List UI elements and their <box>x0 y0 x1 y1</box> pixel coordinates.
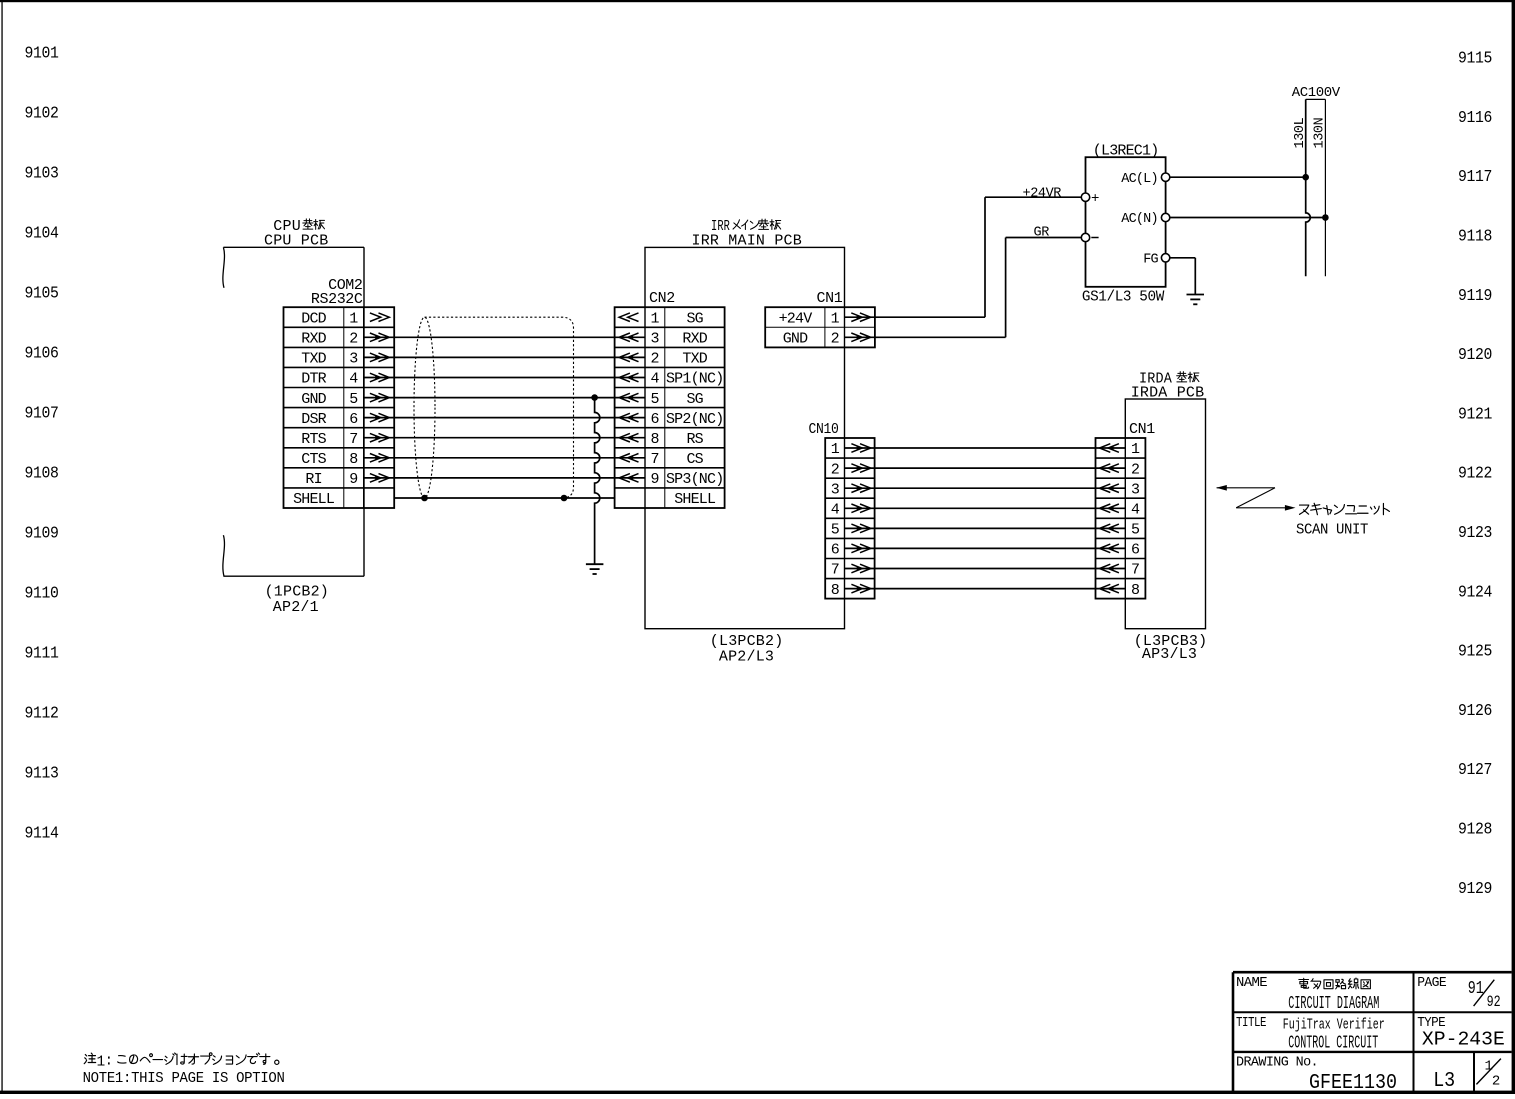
svg-text:9128: 9128 <box>1458 821 1492 839</box>
svg-text:92: 92 <box>1487 993 1501 1011</box>
svg-text:GFEE1130: GFEE1130 <box>1309 1072 1397 1094</box>
CN10 pin 5 <box>831 522 871 539</box>
label CPU基板 / CPU PCB <box>264 218 328 250</box>
CN2 pin 6 (SP2(NC)) <box>619 411 723 428</box>
svg-text:TITLE: TITLE <box>1236 1016 1266 1031</box>
svg-text:9116: 9116 <box>1458 109 1492 127</box>
svg-text:GND: GND <box>783 331 808 348</box>
wire CN10.1 to IRDA CN1.1 <box>845 447 1125 449</box>
svg-text:9127: 9127 <box>1458 761 1492 779</box>
connector CN10 table grid <box>825 438 874 599</box>
svg-text:9: 9 <box>349 471 358 488</box>
IRDA CN1 pin 1 <box>1100 441 1140 458</box>
svg-text::: : <box>105 1054 113 1070</box>
IRDA CN1 pin 4 <box>1100 502 1140 519</box>
svg-text:9124: 9124 <box>1458 583 1492 601</box>
CN2 pin 4 (SP1(NC)) <box>619 371 723 388</box>
IRDA CN1 pin 7 <box>1100 562 1140 579</box>
wire COM2.7 to CN2 (RTS) <box>364 437 645 439</box>
svg-text:1: 1 <box>349 310 358 327</box>
wire PSU AC(N) to 130N line <box>1170 217 1326 219</box>
svg-text:RXD: RXD <box>301 331 326 348</box>
svg-text:GS1/L3 50W: GS1/L3 50W <box>1082 289 1164 306</box>
svg-text:RTS: RTS <box>301 431 326 448</box>
svg-text:SG: SG <box>686 310 703 327</box>
junction dot GND wire to shield drain <box>591 394 598 401</box>
title block sheet fraction 1/2 <box>1476 1058 1501 1089</box>
svg-text:4: 4 <box>650 371 659 388</box>
COM2 pin 9 (RI) <box>305 471 389 488</box>
wire CN10.4 to IRDA CN1.4 <box>845 507 1125 509</box>
svg-text:PAGE: PAGE <box>1417 976 1446 991</box>
CN2 pin 3 (RXD) <box>619 331 708 348</box>
COM2 pin 3 (TXD) <box>301 351 389 368</box>
PSU terminal AC(L) <box>1121 172 1170 187</box>
svg-text:2: 2 <box>831 461 840 478</box>
svg-text:CN2: CN2 <box>649 290 675 307</box>
svg-text:NOTE1:THIS PAGE IS OPTION: NOTE1:THIS PAGE IS OPTION <box>83 1071 285 1087</box>
svg-text:CONTROL CIRCUIT: CONTROL CIRCUIT <box>1288 1033 1378 1053</box>
AC input top bracket <box>1306 98 1326 100</box>
CN2 pin 5 (SG) <box>619 391 704 408</box>
svg-text:IRDA PCB: IRDA PCB <box>1131 385 1205 402</box>
IRDA CN1 pin 5 <box>1100 522 1140 539</box>
svg-text:8: 8 <box>1131 582 1140 599</box>
svg-text:CN1: CN1 <box>817 290 843 307</box>
connector CN1 (IRDA) table grid <box>1096 438 1146 599</box>
svg-text:9122: 9122 <box>1458 465 1492 483</box>
svg-text:RS232C: RS232C <box>311 291 363 308</box>
PSU terminal - (GR) <box>1081 233 1098 241</box>
svg-text:2: 2 <box>831 331 840 348</box>
title block TYPE cell: XP-243E <box>1417 1016 1505 1051</box>
svg-text:9: 9 <box>650 471 659 488</box>
connector CN1 table grid <box>765 307 875 347</box>
svg-text:TXD: TXD <box>301 351 326 368</box>
svg-text:(L3REC1): (L3REC1) <box>1093 142 1159 159</box>
svg-text:9104: 9104 <box>25 225 59 243</box>
svg-text:9111: 9111 <box>25 645 59 663</box>
svg-text:2: 2 <box>650 351 659 368</box>
svg-text:9121: 9121 <box>1458 405 1492 423</box>
earth ground symbol below shield drain <box>586 564 604 574</box>
svg-text:SHELL: SHELL <box>674 491 716 508</box>
svg-text:8: 8 <box>349 451 358 468</box>
CN2 pin 1 (SG) <box>619 310 704 327</box>
svg-text:7: 7 <box>1131 562 1140 579</box>
COM2 pin 4 (DTR) <box>301 371 389 388</box>
wire COM2.2 to CN2 (RXD) <box>364 336 645 338</box>
connector COM2 table grid <box>284 307 395 508</box>
shield drain wire to earth (with wire hops) <box>595 398 600 564</box>
CN1 pin 1 (+24V) <box>779 310 871 327</box>
note 注1:このページはオプションです。 <box>84 1053 279 1071</box>
label (1PCB2) AP2/1 under CPU box <box>265 584 329 616</box>
svg-text:9126: 9126 <box>1458 702 1492 720</box>
svg-text:9105: 9105 <box>25 285 59 303</box>
svg-text:6: 6 <box>349 411 358 428</box>
svg-text:IRR MAIN PCB: IRR MAIN PCB <box>692 232 802 249</box>
svg-text:RXD: RXD <box>682 331 707 348</box>
earth ground symbol at PSU FG <box>1187 295 1205 305</box>
svg-text:GND: GND <box>301 391 326 408</box>
junction dot AC(N) on 130N <box>1322 214 1329 221</box>
svg-text:9115: 9115 <box>1458 50 1492 68</box>
svg-text:XP-243E: XP-243E <box>1422 1029 1505 1051</box>
wire CN10.3 to IRDA CN1.3 <box>845 487 1125 489</box>
shield cable outline (dashed) <box>414 317 574 498</box>
svg-text:AP2/1: AP2/1 <box>273 599 319 616</box>
svg-text:3: 3 <box>831 481 840 498</box>
wire CN10.7 to IRDA CN1.7 <box>845 568 1125 570</box>
svg-text:4: 4 <box>831 502 840 519</box>
label IRRメイン基板 / IRR MAIN PCB <box>692 218 802 250</box>
left margin zone numbers 9101-9114 <box>25 45 59 843</box>
AC input line 130N <box>1324 99 1326 276</box>
svg-text:SP3(NC): SP3(NC) <box>666 471 723 488</box>
COM2 pin SHELL (SHELL) <box>293 491 335 508</box>
net label 130N (vertical) <box>1313 117 1328 148</box>
svg-text:3: 3 <box>1131 481 1140 498</box>
svg-text:AC(N): AC(N) <box>1121 212 1158 227</box>
label IRDA基板 / IRDA PCB <box>1131 370 1205 401</box>
right margin zone numbers 9115-9129 <box>1458 50 1492 898</box>
svg-text:AC(L): AC(L) <box>1121 172 1158 187</box>
svg-text:2: 2 <box>1131 461 1140 478</box>
svg-text:RI: RI <box>305 471 321 488</box>
svg-text:1: 1 <box>1131 441 1140 458</box>
svg-text:6: 6 <box>831 542 840 559</box>
svg-text:CN1: CN1 <box>1129 421 1155 438</box>
svg-text:3: 3 <box>650 331 659 348</box>
junction dot on SHELL wire at shield left <box>421 495 428 502</box>
IRDA PCB board outline (L3PCB3 AP3/L3) <box>1125 399 1205 629</box>
svg-text:CS: CS <box>686 451 703 468</box>
CN2 pin 9 (SP3(NC)) <box>619 471 723 488</box>
svg-text:5: 5 <box>1131 522 1140 539</box>
svg-text:SCAN UNIT: SCAN UNIT <box>1296 522 1369 538</box>
svg-text:+24VR: +24VR <box>1023 186 1062 201</box>
svg-text:9103: 9103 <box>25 165 59 183</box>
net label 130L (vertical) <box>1293 117 1308 148</box>
PSU terminal FG <box>1143 252 1170 267</box>
svg-text:L3: L3 <box>1433 1070 1455 1093</box>
title block NAME cell: 電気回路線図 CIRCUIT DIAGRAM <box>1236 976 1379 1014</box>
svg-text:CN10: CN10 <box>809 421 839 438</box>
IRDA CN1 pin 6 <box>1100 542 1140 559</box>
CN10 pin 4 <box>831 502 871 519</box>
svg-text:FG: FG <box>1143 252 1158 267</box>
wire COM2.6 to CN2 (DSR) <box>364 417 645 419</box>
wire PSU FG to earth ground <box>1170 258 1196 294</box>
svg-text:9107: 9107 <box>25 405 59 423</box>
svg-text:1: 1 <box>831 310 840 327</box>
label スキャンユニット / SCAN UNIT <box>1296 503 1389 538</box>
svg-text:4: 4 <box>1131 502 1140 519</box>
svg-text:9110: 9110 <box>25 585 59 603</box>
PSU terminal AC(N) <box>1121 212 1170 227</box>
svg-text:9102: 9102 <box>25 105 59 123</box>
svg-text:CPU PCB: CPU PCB <box>264 232 328 249</box>
junction dot AC(L) on 130L <box>1302 174 1309 181</box>
label (L3PCB3) AP3/L3 under IRDA box <box>1134 633 1208 663</box>
PSU terminal + (24V out) <box>1081 191 1099 207</box>
svg-text:7: 7 <box>831 562 840 579</box>
wire COM2.8 to CN2 (CTS) <box>364 457 645 459</box>
IRDA CN1 pin 2 <box>1100 461 1140 478</box>
CN1 pin 2 (GND) <box>783 331 871 348</box>
svg-text:TXD: TXD <box>682 351 707 368</box>
svg-text:8: 8 <box>650 431 659 448</box>
svg-text:6: 6 <box>1131 542 1140 559</box>
svg-text:FujiTrax Verifier: FujiTrax Verifier <box>1283 1017 1385 1034</box>
connector COM2 RS232C labels <box>311 277 363 308</box>
svg-text:9120: 9120 <box>1458 346 1492 364</box>
svg-text:5: 5 <box>349 391 358 408</box>
wire COM2.4 to CN2 (DTR) <box>364 377 645 379</box>
CN2 pin SHELL (SHELL) <box>674 491 716 508</box>
svg-text:3: 3 <box>349 351 358 368</box>
svg-text:9123: 9123 <box>1458 524 1492 542</box>
svg-text:NAME: NAME <box>1236 976 1268 991</box>
svg-text:9109: 9109 <box>25 525 59 543</box>
svg-text:9108: 9108 <box>25 465 59 483</box>
COM2 pin 6 (DSR) <box>301 411 389 428</box>
svg-text:SHELL: SHELL <box>293 491 335 508</box>
svg-text:AC100V: AC100V <box>1292 85 1341 101</box>
svg-text:1: 1 <box>650 310 659 327</box>
svg-text:9119: 9119 <box>1458 287 1492 305</box>
svg-text:7: 7 <box>349 431 358 448</box>
svg-text:GR: GR <box>1034 225 1050 240</box>
IRR MAIN PCB board outline (L3PCB2 AP2/L3) <box>645 247 845 628</box>
svg-text:7: 7 <box>650 451 659 468</box>
COM2 pin 1 (DCD) <box>301 310 389 327</box>
title block TITLE cell: FujiTrax Verifier CONTROL CIRCUIT <box>1236 1016 1385 1054</box>
title block frame <box>1233 972 1512 1092</box>
svg-text:DCD: DCD <box>301 310 326 327</box>
CN2 pin 8 (RS) <box>619 431 704 448</box>
svg-text:9117: 9117 <box>1458 168 1492 186</box>
COM2 pin 8 (CTS) <box>301 451 389 468</box>
IRDA CN1 pin 8 <box>1100 582 1140 599</box>
IRDA CN1 pin 3 <box>1100 481 1140 498</box>
svg-text:2: 2 <box>349 331 358 348</box>
COM2 pin 2 (RXD) <box>301 331 389 348</box>
svg-text:9112: 9112 <box>25 705 59 723</box>
scan unit leader arrow <box>1216 485 1295 511</box>
svg-text:SP2(NC): SP2(NC) <box>666 411 723 428</box>
svg-text:130L: 130L <box>1293 117 1308 148</box>
connector CN2 table grid <box>615 307 725 508</box>
svg-text:AP2/L3: AP2/L3 <box>719 648 774 665</box>
svg-text:SP1(NC): SP1(NC) <box>666 371 723 388</box>
svg-text:DTR: DTR <box>301 371 326 388</box>
svg-text:9114: 9114 <box>25 825 59 843</box>
svg-text:CTS: CTS <box>301 451 326 468</box>
power supply unit GS1/L3 50W (L3REC1) box <box>1086 157 1166 287</box>
svg-text:1: 1 <box>831 441 840 458</box>
wire CN1.2 to PSU - terminal (GR) <box>845 238 1081 338</box>
CN2 pin 7 (CS) <box>619 451 704 468</box>
svg-text:9118: 9118 <box>1458 228 1492 246</box>
title block DRAWING No. cell: GFEE1130 <box>1236 1055 1397 1095</box>
svg-text:2: 2 <box>1492 1073 1500 1089</box>
svg-text:8: 8 <box>831 582 840 599</box>
wire CN10.2 to IRDA CN1.2 <box>845 467 1125 469</box>
CN2 pin 2 (TXD) <box>619 351 708 368</box>
COM2 pin 7 (RTS) <box>301 431 389 448</box>
CN10 pin 7 <box>831 562 871 579</box>
svg-text:DSR: DSR <box>301 411 326 428</box>
CN10 pin 6 <box>831 542 871 559</box>
svg-text:5: 5 <box>831 522 840 539</box>
svg-text:9101: 9101 <box>25 45 59 63</box>
wire COM2.9 to CN2 (RI) <box>364 477 645 479</box>
wire CN10.8 to IRDA CN1.8 <box>845 588 1125 590</box>
wire CN10.5 to IRDA CN1.5 <box>845 527 1125 529</box>
svg-text:5: 5 <box>650 391 659 408</box>
title block PAGE cell: 91/92 <box>1417 976 1500 1011</box>
svg-text:SG: SG <box>686 391 703 408</box>
svg-text:+: + <box>1091 191 1099 207</box>
svg-text:+24V: +24V <box>779 310 813 327</box>
CN10 pin 1 <box>831 441 871 458</box>
CN10 pin 3 <box>831 481 871 498</box>
svg-text:9106: 9106 <box>25 345 59 363</box>
CPU PCB board outline (1PCB2 AP2/1) <box>223 247 364 576</box>
wire PSU AC(L) to 130L line <box>1170 176 1306 178</box>
wire COM2.SHELL to CN2.SHELL <box>394 497 614 499</box>
svg-text:130N: 130N <box>1313 117 1328 148</box>
svg-text:CIRCUIT DIAGRAM: CIRCUIT DIAGRAM <box>1288 994 1379 1014</box>
svg-text:9129: 9129 <box>1458 880 1492 898</box>
COM2 pin 5 (GND) <box>301 391 389 408</box>
svg-text:4: 4 <box>349 371 358 388</box>
svg-text:9113: 9113 <box>25 765 59 783</box>
svg-text:DRAWING No.: DRAWING No. <box>1236 1055 1318 1070</box>
CN10 pin 2 <box>831 461 871 478</box>
svg-text:9125: 9125 <box>1458 643 1492 661</box>
wire CN10.6 to IRDA CN1.6 <box>845 547 1125 549</box>
wire CN1.1 to PSU + terminal (+24VR) <box>845 197 1081 317</box>
svg-text:6: 6 <box>650 411 659 428</box>
label (L3PCB2) AP2/L3 under IRR box <box>710 633 784 665</box>
wire COM2.5 to CN2 (GND) <box>364 397 645 399</box>
wire COM2.3 to CN2 (TXD) <box>364 356 645 358</box>
AC input line 130L (with hop over AC(N) wire) <box>1306 99 1311 276</box>
svg-text:AP3/L3: AP3/L3 <box>1142 646 1197 663</box>
svg-text:RS: RS <box>686 431 703 448</box>
CN10 pin 8 <box>831 582 871 599</box>
junction dot on SHELL wire at shield right <box>561 495 568 502</box>
